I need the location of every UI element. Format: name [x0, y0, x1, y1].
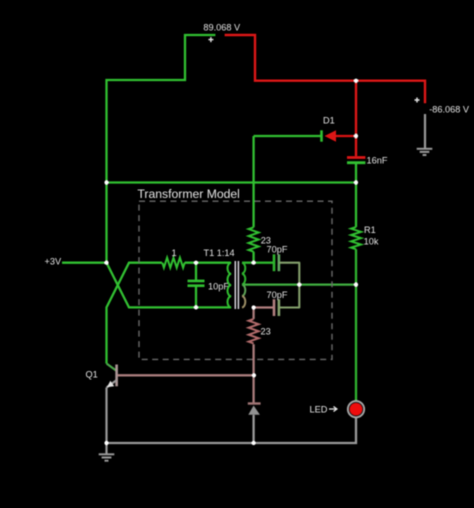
diode D2 — [248, 404, 261, 444]
capacitor 70pF top — [267, 245, 300, 285]
junction: red rail / 16nF branch — [354, 79, 358, 83]
wire: R1 bottom to LED — [355, 285, 357, 401]
wire: secondary bottom to resistor 23 — [252, 308, 254, 320]
svg-text:89.068 V: 89.068 V — [203, 23, 241, 33]
wire: base brown — [118, 374, 255, 376]
svg-text:D1: D1 — [323, 116, 335, 126]
wire: crossover +3V to primary bottom — [107, 263, 231, 308]
wire: brown vertical to diode D2 — [252, 344, 254, 403]
svg-text:Q1: Q1 — [86, 370, 98, 380]
wire: emitter to left ground — [105, 388, 107, 454]
resistor 23 top — [249, 136, 271, 263]
junction: secondary top node — [252, 261, 256, 265]
diode D1 — [254, 116, 356, 142]
junction: 10pF top — [194, 261, 198, 265]
probe -86.068 V — [415, 98, 470, 115]
wire: green horizontal y=182.5 from node A to 16nF node — [107, 181, 357, 183]
resistor R1 — [351, 183, 379, 285]
wire: gray to right ground — [424, 114, 426, 148]
svg-text:23: 23 — [261, 326, 271, 336]
LED — [310, 401, 365, 418]
svg-text:10k: 10k — [364, 236, 379, 246]
svg-text:10pF: 10pF — [208, 281, 229, 291]
transformer model dashed box — [137, 187, 332, 360]
transformer T1 secondary coil upper — [242, 263, 245, 285]
svg-text:T1 1:14: T1 1:14 — [204, 248, 235, 258]
junction: +3V node — [104, 261, 108, 265]
svg-text:+3V: +3V — [45, 257, 62, 267]
wire: green net from probe+ terminal down-left — [107, 35, 216, 183]
capacitor 70pF bottom — [254, 285, 300, 316]
wire: red vertical to diode/cap node — [355, 81, 357, 136]
svg-text:70pF: 70pF — [267, 290, 288, 300]
junction: 16nF bottom / R1 top — [354, 180, 358, 184]
transformer core — [235, 261, 238, 309]
transformer T1 secondary coil lower — [242, 285, 245, 308]
wire: green vertical x=106.5 from node A to +3V node — [105, 183, 107, 263]
junction: tap / R1 bottom — [354, 283, 358, 287]
resistor 23 bottom — [249, 319, 271, 343]
capacitor 10pF — [188, 263, 230, 308]
junction: node A left — [104, 180, 108, 184]
junction: secondary bottom node — [252, 305, 256, 309]
node +3V label lead — [45, 257, 107, 267]
svg-text:Transformer Model: Transformer Model — [137, 187, 240, 201]
svg-text:LED: LED — [310, 405, 328, 415]
svg-text:16nF: 16nF — [367, 156, 388, 166]
resistor 1 — [162, 248, 184, 268]
junction: ground node — [104, 441, 108, 445]
transformer T1 primary coil — [204, 248, 235, 307]
transistor Q1 — [86, 364, 117, 388]
svg-text:1: 1 — [172, 248, 177, 258]
wire: bottom gray rail — [107, 417, 357, 443]
svg-text:70pF: 70pF — [267, 245, 288, 255]
svg-text:-86.068 V: -86.068 V — [429, 105, 470, 115]
junction: Q1 base node — [252, 373, 256, 377]
junction: D2 / ground rail — [252, 441, 256, 445]
svg-text:R1: R1 — [364, 225, 376, 235]
ground left — [99, 454, 115, 460]
capacitor 16nF — [347, 136, 388, 183]
wire: secondary center tap to R1 bottom — [242, 284, 356, 286]
junction: 70pF pair / tap — [297, 283, 301, 287]
probe 89.068 V — [203, 23, 241, 43]
junction: D1 anode / 16nF top — [354, 134, 358, 138]
wire: red top net — [225, 35, 425, 103]
ground right — [417, 149, 433, 155]
junction: 10pF bottom — [194, 305, 198, 309]
wire: crossover collector to resistor row — [107, 263, 163, 364]
wire: resistor 1 to primary top — [185, 262, 231, 264]
wire: secondary top to node — [242, 262, 273, 264]
